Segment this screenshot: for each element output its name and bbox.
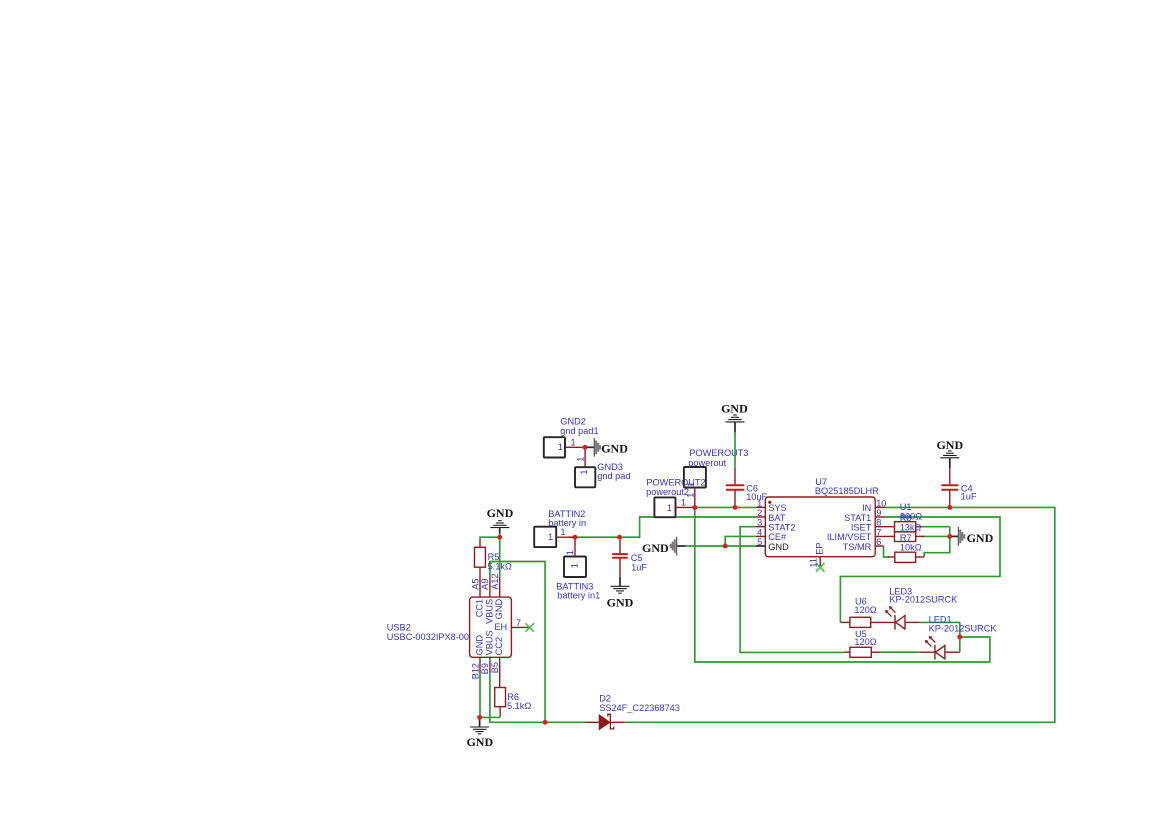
svg-text:R5: R5 xyxy=(488,552,500,562)
svg-text:1: 1 xyxy=(575,457,585,462)
wire SYS rail POWEROUT to pin1 xyxy=(693,506,756,508)
junction BATTIN2 xyxy=(573,535,578,540)
svg-text:9: 9 xyxy=(876,508,881,518)
wire LED string vertical xyxy=(959,622,961,652)
svg-text:1: 1 xyxy=(565,550,575,555)
svg-text:1: 1 xyxy=(757,498,762,508)
svg-text:USBC-0032IPX8-00: USBC-0032IPX8-00 xyxy=(387,632,469,642)
svg-text:5.1kΩ: 5.1kΩ xyxy=(488,562,512,572)
wire U5 to LED1 xyxy=(880,651,919,653)
resistor U1 800ohm xyxy=(895,522,916,532)
svg-text:R7: R7 xyxy=(900,533,912,543)
svg-text:battery in: battery in xyxy=(548,518,586,528)
U7 pin stubs left 1-4 xyxy=(756,506,766,508)
svg-text:B9: B9 xyxy=(480,663,490,674)
svg-text:GND: GND xyxy=(466,735,493,749)
junction POWEROUT2 xyxy=(692,505,697,510)
power GND flag right of R8 xyxy=(950,535,959,537)
connector BATTIN2 xyxy=(534,527,556,547)
U7 EP pin stub xyxy=(819,557,821,568)
resistor U5 120ohm xyxy=(844,651,850,653)
svg-text:GND: GND xyxy=(936,438,963,452)
svg-text:GND: GND xyxy=(642,541,669,555)
svg-text:A5: A5 xyxy=(470,579,480,590)
svg-text:1: 1 xyxy=(667,503,672,513)
BATTIN3 pin 1 stub xyxy=(574,539,576,556)
svg-text:CE#: CE# xyxy=(768,532,787,542)
U7 pin 5 stub black xyxy=(756,545,766,547)
wire VBUS jog A9 to bottom rail xyxy=(490,562,545,723)
svg-text:7: 7 xyxy=(516,618,521,628)
BATTIN2 pin 1 stub xyxy=(556,536,574,538)
svg-text:7: 7 xyxy=(876,527,881,537)
junction R8 GND xyxy=(947,534,952,539)
svg-text:EH: EH xyxy=(494,622,507,632)
svg-text:1: 1 xyxy=(560,527,565,537)
svg-text:GND: GND xyxy=(768,542,789,552)
capacitor C6 xyxy=(734,467,736,485)
svg-text:STAT1: STAT1 xyxy=(844,513,871,523)
svg-text:powerout: powerout xyxy=(688,458,726,468)
wire R6 bottom to GND junction xyxy=(480,716,501,718)
svg-text:6: 6 xyxy=(876,537,881,547)
svg-text:TS/MR: TS/MR xyxy=(843,542,872,552)
svg-text:GND: GND xyxy=(474,635,484,656)
connector GND2 xyxy=(544,437,565,457)
junction C5 top xyxy=(617,535,622,540)
svg-text:2: 2 xyxy=(757,508,762,518)
junction GND2 node xyxy=(583,445,588,450)
wire GND flag to R5 and USB GND pin xyxy=(480,534,500,577)
junction LED loop xyxy=(957,635,962,640)
svg-text:120Ω: 120Ω xyxy=(854,637,876,647)
GND2 pin 1 stub xyxy=(565,446,585,448)
capacitor C4 xyxy=(949,468,951,485)
svg-text:B5: B5 xyxy=(490,662,500,673)
svg-text:battery in1: battery in1 xyxy=(557,591,600,601)
svg-text:GND: GND xyxy=(601,441,628,455)
connector POWEROUT2 xyxy=(654,497,675,517)
svg-text:IN: IN xyxy=(862,503,871,513)
svg-text:U1: U1 xyxy=(900,502,912,512)
wire TS/MR jog to R7 xyxy=(884,546,890,557)
wire U1 resistor right xyxy=(922,526,950,528)
resistor R8 13k xyxy=(895,532,916,542)
svg-text:A9: A9 xyxy=(480,579,490,590)
wire STAT2 to U5 xyxy=(740,527,844,653)
LED1 KP-2012SURCK xyxy=(919,651,935,653)
wire CE# tie to GND row xyxy=(725,536,756,546)
svg-text:1: 1 xyxy=(579,469,589,474)
junction USB GND bottom xyxy=(477,715,482,720)
power GND bottom left xyxy=(479,717,481,726)
svg-text:C5: C5 xyxy=(631,553,643,563)
wire bottom rail B9 to D2 anode xyxy=(490,673,585,722)
junction bottom rail xyxy=(543,720,548,725)
svg-text:3: 3 xyxy=(757,518,762,528)
svg-text:1: 1 xyxy=(548,532,553,542)
svg-text:1: 1 xyxy=(571,437,576,447)
resistor R5 xyxy=(479,539,481,548)
svg-text:STAT2: STAT2 xyxy=(768,523,795,533)
wire BAT net battery to pin2 xyxy=(569,517,756,537)
svg-text:A12: A12 xyxy=(490,573,500,589)
svg-text:GND: GND xyxy=(494,599,504,620)
capacitor C5 xyxy=(619,537,621,554)
connector POWEROUT3 xyxy=(684,467,706,488)
svg-text:10: 10 xyxy=(876,498,886,508)
svg-text:11: 11 xyxy=(809,558,819,568)
connector GND3 xyxy=(575,467,595,487)
IC U7 BQ25185DLHR xyxy=(765,497,875,557)
svg-text:13kΩ: 13kΩ xyxy=(900,522,922,532)
svg-text:5.1kΩ: 5.1kΩ xyxy=(507,701,531,711)
U7 pin stubs right xyxy=(875,506,885,508)
USB2 top pin stubs A9 A12 xyxy=(489,577,491,597)
svg-text:VBUS: VBUS xyxy=(484,599,494,624)
svg-text:CC1: CC1 xyxy=(474,599,484,617)
svg-text:1: 1 xyxy=(558,442,563,452)
resistor R6 xyxy=(495,688,506,707)
wire right resistor group to GND column xyxy=(924,527,950,557)
junction CE# GND row xyxy=(723,544,728,549)
svg-text:gnd pad: gnd pad xyxy=(597,471,630,481)
svg-text:BAT: BAT xyxy=(768,513,786,523)
svg-text:KP-2012SURCK: KP-2012SURCK xyxy=(929,624,998,634)
svg-text:GND: GND xyxy=(967,531,994,545)
USB2 bottom pin stubs xyxy=(479,657,481,673)
svg-text:EP: EP xyxy=(815,543,825,555)
power GND flag left of pin5 xyxy=(677,545,686,547)
svg-text:1: 1 xyxy=(569,563,579,568)
svg-text:GND: GND xyxy=(721,402,748,416)
svg-text:ILIM/VSET: ILIM/VSET xyxy=(827,532,872,542)
svg-text:gnd pad1: gnd pad1 xyxy=(560,426,598,436)
svg-text:1uF: 1uF xyxy=(961,492,977,502)
POWEROUT2 pin 1 stub xyxy=(676,506,694,508)
svg-text:1: 1 xyxy=(681,498,686,508)
junction R5 top xyxy=(497,535,502,540)
svg-text:GND2: GND2 xyxy=(560,417,586,427)
wire LED3 anode to vertical xyxy=(920,621,960,623)
svg-text:ISET: ISET xyxy=(851,523,872,533)
svg-text:B12: B12 xyxy=(470,663,480,679)
GND3 pin 1 stub xyxy=(584,447,586,467)
wire GND flag to pin5 xyxy=(685,545,756,547)
svg-text:4: 4 xyxy=(757,527,762,537)
junction C6 bottom xyxy=(733,505,738,510)
LED3 KP-2012SURCK xyxy=(894,615,896,630)
svg-text:SS24F_C22368743: SS24F_C22368743 xyxy=(599,703,680,713)
svg-text:GND: GND xyxy=(607,595,634,609)
svg-text:10kΩ: 10kΩ xyxy=(900,543,922,553)
svg-text:8: 8 xyxy=(876,518,881,528)
wire STAT1 to U6 xyxy=(840,517,1000,622)
svg-text:VBUS: VBUS xyxy=(484,630,494,655)
wire R8 right to GND junction xyxy=(922,535,950,537)
resistor R7 10k xyxy=(895,552,916,562)
svg-text:CC2: CC2 xyxy=(494,637,504,655)
svg-text:5: 5 xyxy=(757,537,762,547)
wire B12 to ground junction xyxy=(479,673,481,717)
diode D2 SS24F xyxy=(585,721,599,723)
junction C4 bottom xyxy=(947,505,952,510)
power GND below C5 xyxy=(619,577,621,586)
connector BATTIN3 xyxy=(564,557,586,578)
POWEROUT3 pin 1 stub xyxy=(694,488,696,508)
svg-text:GND: GND xyxy=(487,506,514,520)
svg-text:120Ω: 120Ω xyxy=(854,605,876,615)
svg-text:BQ25185DLHR: BQ25185DLHR xyxy=(815,486,879,496)
svg-text:SYS: SYS xyxy=(768,503,786,513)
svg-text:KP-2012SURCK: KP-2012SURCK xyxy=(889,595,958,605)
svg-text:powerout2: powerout2 xyxy=(646,487,689,497)
power GND flag at GND2 xyxy=(585,446,594,448)
wire SYS vertical to bottom LED loop xyxy=(695,507,990,662)
wire IN net to D2 cathode xyxy=(625,507,1055,722)
IC USB2 USBC connector xyxy=(470,597,512,657)
svg-text:POWEROUT3: POWEROUT3 xyxy=(689,448,748,458)
svg-text:R8: R8 xyxy=(900,513,912,523)
wire GND to C6 xyxy=(734,432,736,467)
svg-text:1uF: 1uF xyxy=(631,563,647,573)
no-connect X on EP pin xyxy=(816,563,825,572)
resistor U6 120ohm xyxy=(840,621,850,623)
